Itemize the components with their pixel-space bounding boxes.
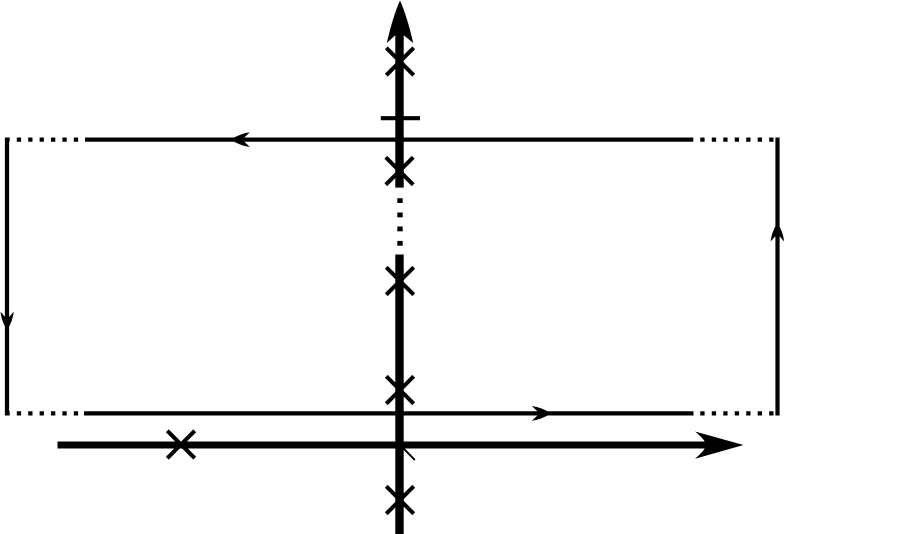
tick on imaginary axis	[381, 116, 420, 120]
imaginary axis upper shaft	[395, 30, 403, 188]
contour bottom side solid	[84, 411, 694, 415]
contour top side solid	[85, 138, 693, 142]
pole X3	[386, 267, 413, 294]
pole X5 on real axis	[167, 431, 194, 458]
pole X6	[386, 486, 413, 513]
contour left arrow (downwards)	[1, 312, 14, 330]
diagonal mark near origin	[404, 448, 415, 459]
pole X1	[386, 48, 413, 75]
pole X4	[386, 376, 413, 403]
contour right arrow (upwards)	[771, 223, 784, 242]
contour bottom arrow (rightwards)	[532, 406, 551, 421]
real axis shaft	[58, 442, 713, 449]
imaginary axis arrowhead	[387, 1, 413, 44]
real axis arrowhead	[695, 432, 744, 459]
contour bottom side dotted left	[5, 411, 84, 415]
contour top side dotted right	[700, 138, 779, 142]
contour left side	[5, 138, 9, 416]
contour right side	[775, 138, 779, 416]
imaginary axis lower shaft	[395, 255, 403, 534]
pole X2	[386, 157, 413, 184]
contour top arrow (leftwards)	[231, 132, 250, 147]
contour top side dotted left	[5, 138, 85, 142]
imaginary axis dotted segment	[397, 198, 402, 246]
contour bottom side dotted right	[700, 411, 779, 415]
